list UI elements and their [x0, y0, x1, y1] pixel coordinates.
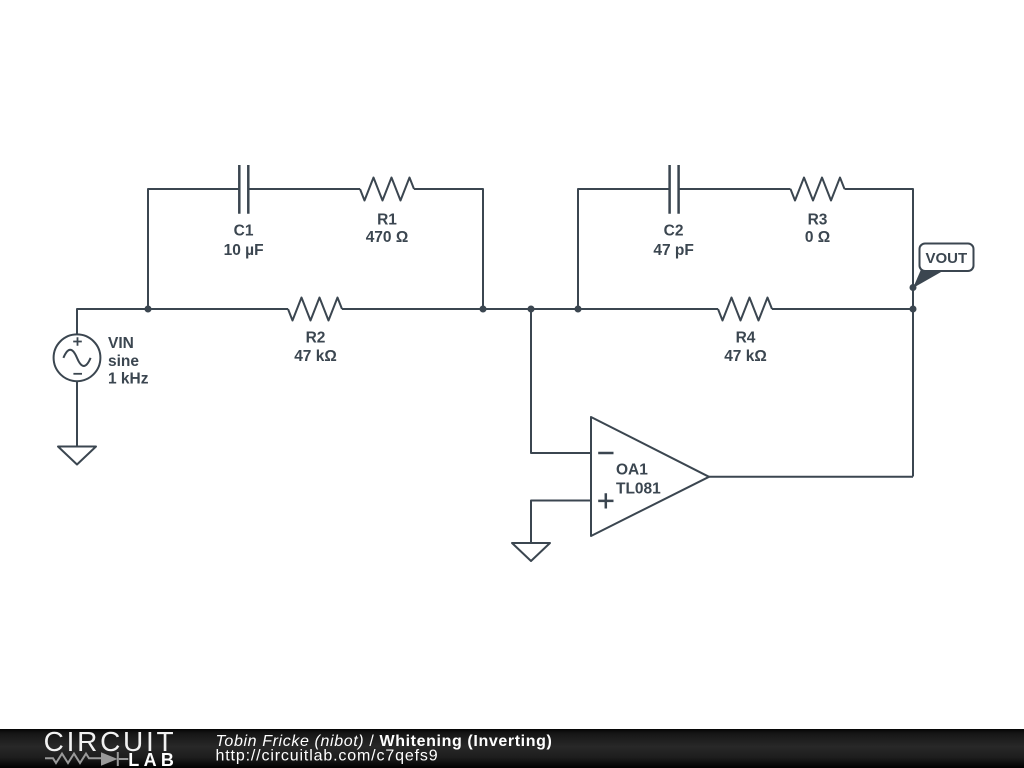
svg-text:0 Ω: 0 Ω	[805, 229, 830, 246]
svg-text:47 pF: 47 pF	[653, 242, 693, 259]
svg-text:VIN: VIN	[108, 335, 134, 352]
svg-text:OA1: OA1	[616, 462, 648, 479]
svg-text:VOUT: VOUT	[925, 250, 967, 267]
svg-text:http://circuitlab.com/c7qefs9: http://circuitlab.com/c7qefs9	[216, 747, 439, 764]
svg-text:LAB: LAB	[128, 750, 178, 768]
svg-text:R3: R3	[808, 212, 828, 229]
svg-text:47 kΩ: 47 kΩ	[724, 348, 767, 365]
svg-text:sine: sine	[108, 353, 139, 370]
svg-text:C1: C1	[234, 223, 254, 240]
svg-text:R4: R4	[736, 330, 756, 347]
svg-text:C2: C2	[664, 223, 684, 240]
svg-text:470 Ω: 470 Ω	[366, 229, 409, 246]
svg-text:R1: R1	[377, 212, 397, 229]
svg-text:10 µF: 10 µF	[224, 242, 264, 259]
svg-text:TL081: TL081	[616, 481, 661, 498]
svg-text:R2: R2	[306, 330, 326, 347]
svg-text:1 kHz: 1 kHz	[108, 371, 149, 388]
svg-text:47 kΩ: 47 kΩ	[294, 348, 337, 365]
